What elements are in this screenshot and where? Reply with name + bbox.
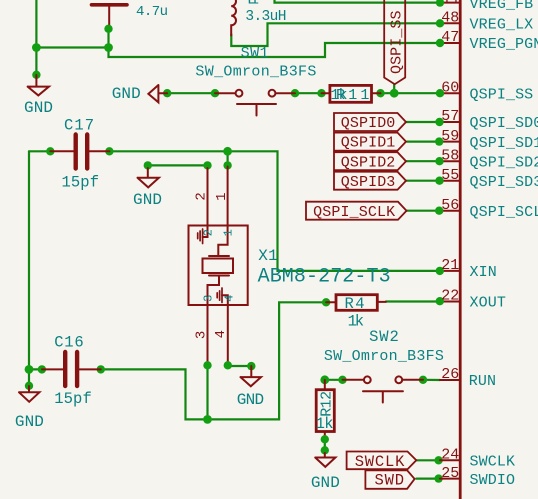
- wire top horizontal between junctions: [36, 46, 108, 48]
- svg-text:GND: GND: [24, 99, 53, 117]
- ground at crystal pin2: [133, 161, 162, 209]
- wire SWD label to pin25: [416, 478, 438, 480]
- svg-text:47: 47: [441, 29, 459, 46]
- svg-text:22: 22: [441, 288, 459, 305]
- crystal pin 4 (case): [217, 288, 232, 369]
- wire left rail top vertical: [35, 0, 37, 75]
- svg-text:C16: C16: [54, 334, 83, 352]
- junction top-left rail: [32, 43, 41, 52]
- wire QSPID3: [406, 180, 440, 182]
- wire crystal pin3 down: [206, 365, 208, 419]
- svg-text:SWCLK: SWCLK: [355, 453, 405, 471]
- svg-text:15pf: 15pf: [62, 174, 100, 192]
- switch SW2: [338, 376, 427, 403]
- svg-text:SW2: SW2: [369, 328, 399, 346]
- svg-text:3: 3: [202, 295, 216, 302]
- junction QSPI_SS node: [390, 89, 399, 98]
- ground top-left: [24, 71, 53, 118]
- wire QSPID0: [406, 121, 440, 123]
- wire VREG_FB: [275, 0, 441, 3]
- resistor R4: [322, 295, 386, 331]
- wire R12 bottom to gnd: [324, 439, 326, 450]
- wire SW2 right to RUN: [423, 379, 440, 381]
- wire SW1 to R11: [295, 92, 322, 94]
- svg-text:VREG_FB: VREG_FB: [470, 0, 534, 13]
- svg-text:QSPI_SS: QSPI_SS: [470, 86, 534, 103]
- wire SWCLK label to pin24: [416, 459, 438, 461]
- wire C16 right to bottom rail: [101, 302, 326, 419]
- IC U1 body border: [459, 0, 462, 499]
- svg-text:57: 57: [441, 108, 459, 125]
- wire QSPI_SS label stub: [393, 85, 395, 94]
- global label SWCLK: [347, 452, 417, 471]
- ground at crystal pin4: [237, 362, 264, 409]
- svg-text:4.7u: 4.7u: [136, 4, 168, 20]
- svg-text:QSPI_SS: QSPI_SS: [389, 11, 406, 75]
- svg-text:4: 4: [223, 295, 237, 302]
- wire C17 right to XIN: [109, 151, 440, 271]
- global label QSPID2: [334, 152, 406, 171]
- svg-text:XIN: XIN: [470, 264, 497, 281]
- wire C4 cap to junction: [109, 29, 441, 57]
- junction bottom rail crystal pin3: [203, 415, 212, 424]
- IC pin stubs: [440, 3, 460, 479]
- ground below R12: [311, 453, 340, 492]
- pin-end square cap C4: [104, 25, 112, 33]
- svg-text:24: 24: [441, 447, 459, 464]
- svg-text:44: 44: [441, 0, 459, 7]
- svg-text:1k: 1k: [348, 312, 365, 330]
- svg-text:15pf: 15pf: [54, 390, 92, 408]
- svg-text:QSPI_SCLK: QSPI_SCLK: [470, 204, 538, 221]
- wire R4 right to XOUT: [386, 300, 440, 302]
- svg-text:VREG_PGND: VREG_PGND: [470, 36, 538, 53]
- svg-text:48: 48: [441, 10, 459, 27]
- svg-text:SW1: SW1: [241, 45, 269, 62]
- svg-text:GND: GND: [112, 85, 141, 103]
- crystal pin 2 (case): [198, 161, 212, 243]
- svg-text:4: 4: [213, 330, 229, 338]
- junction SW2 R12 node: [320, 375, 329, 384]
- junction C16 rail node: [25, 365, 34, 374]
- svg-text:VREG_LX: VREG_LX: [470, 17, 534, 34]
- ground bottom-left rail: [15, 382, 44, 431]
- svg-text:GND: GND: [311, 474, 340, 492]
- wire GND to SW1: [167, 92, 215, 94]
- svg-text:26: 26: [441, 366, 459, 383]
- svg-text:QSPI_SD1: QSPI_SD1: [470, 135, 538, 152]
- ground left-pointing at SW1: [112, 85, 172, 103]
- svg-text:3: 3: [194, 331, 210, 339]
- capacitor C16: [38, 334, 105, 409]
- wire QSPI_SCLK: [407, 210, 440, 212]
- svg-text:21: 21: [441, 257, 459, 274]
- resistor R12 (vertical): [316, 380, 336, 454]
- wire QSPID1: [407, 141, 440, 143]
- junction XIN node: [223, 147, 232, 156]
- svg-text:59: 59: [441, 128, 459, 145]
- global label QSPID1: [334, 133, 406, 152]
- wire R11 to pin60: [381, 92, 441, 94]
- wire rail to C16: [29, 368, 42, 370]
- svg-text:GND: GND: [237, 391, 264, 409]
- svg-text:1: 1: [214, 192, 230, 200]
- wire gnd to crystal pin2: [148, 165, 208, 168]
- svg-text:QSPID0: QSPID0: [341, 115, 396, 132]
- svg-text:3.3uH: 3.3uH: [245, 9, 286, 25]
- svg-text:QSPI_SD2: QSPI_SD2: [470, 154, 538, 171]
- svg-text:1k: 1k: [316, 415, 334, 433]
- global label QSPI_SS (vertical): [384, 0, 405, 84]
- svg-text:56: 56: [441, 197, 459, 214]
- wire rail to gnd bottom: [28, 369, 30, 385]
- pin-end square pin24: [434, 456, 442, 464]
- svg-text:55: 55: [441, 167, 459, 184]
- crystal pin 3: [203, 276, 219, 370]
- svg-text:2: 2: [202, 229, 216, 236]
- crystal plates and body rect: [203, 256, 234, 276]
- svg-text:GND: GND: [133, 191, 162, 209]
- svg-text:QSPID1: QSPID1: [341, 135, 396, 152]
- svg-text:QSPI_SCLK: QSPI_SCLK: [313, 204, 395, 221]
- crystal X1 body: [189, 226, 248, 306]
- pin-end dots: [435, 0, 444, 305]
- global label QSPID3: [334, 172, 406, 191]
- wire crystal pin1 stub: [227, 151, 229, 165]
- svg-text:SWDIO: SWDIO: [470, 472, 516, 489]
- svg-text:GND: GND: [15, 413, 44, 431]
- svg-text:25: 25: [441, 465, 459, 482]
- svg-text:2: 2: [194, 192, 210, 200]
- wire inductor bottom to VREG_LX: [231, 23, 440, 46]
- global label QSPI_SCLK: [306, 202, 407, 221]
- global label QSPID0: [334, 113, 406, 132]
- wire rail to C17: [29, 150, 50, 152]
- svg-text:SWD: SWD: [375, 471, 405, 489]
- svg-text:1: 1: [222, 229, 236, 236]
- svg-text:XOUT: XOUT: [470, 295, 506, 312]
- wire left rail vertical: [28, 151, 30, 369]
- svg-text:58: 58: [441, 147, 459, 164]
- svg-text:C17: C17: [64, 117, 94, 135]
- svg-text:SWCLK: SWCLK: [470, 454, 516, 471]
- svg-text:SW_Omron_B3FS: SW_Omron_B3FS: [195, 63, 316, 80]
- svg-text:SW_Omron_B3FS: SW_Omron_B3FS: [324, 348, 444, 365]
- svg-text:R12: R12: [318, 391, 335, 417]
- wire QSPID2: [406, 160, 440, 162]
- switch SW1: [211, 89, 299, 116]
- svg-text:R4: R4: [345, 295, 365, 313]
- svg-text:R11: R11: [336, 87, 369, 104]
- svg-text:QSPID3: QSPID3: [341, 174, 396, 191]
- svg-text:ABM8-272-T3: ABM8-272-T3: [258, 266, 391, 289]
- wire SW2 left: [325, 379, 343, 381]
- svg-text:60: 60: [441, 79, 459, 96]
- svg-text:QSPI_SD0: QSPI_SD0: [470, 115, 538, 132]
- svg-text:QSPI_SD3: QSPI_SD3: [470, 174, 538, 191]
- inductor L1: [231, 0, 236, 36]
- svg-text:L1: L1: [247, 0, 259, 9]
- svg-text:RUN: RUN: [469, 373, 496, 390]
- pin-end square pin25: [434, 474, 442, 482]
- junction cap C4 node: [104, 43, 113, 52]
- wire crystal pin4 to gnd: [228, 365, 251, 367]
- capacitor C17: [46, 117, 114, 192]
- crystal pin 1: [218, 161, 232, 256]
- resistor R11: [317, 85, 384, 103]
- svg-text:X1: X1: [258, 247, 277, 265]
- global label SWD: [365, 470, 414, 489]
- capacitor C4 bottom plate (cut off at top): [92, 5, 128, 26]
- svg-text:QSPID2: QSPID2: [341, 154, 396, 171]
